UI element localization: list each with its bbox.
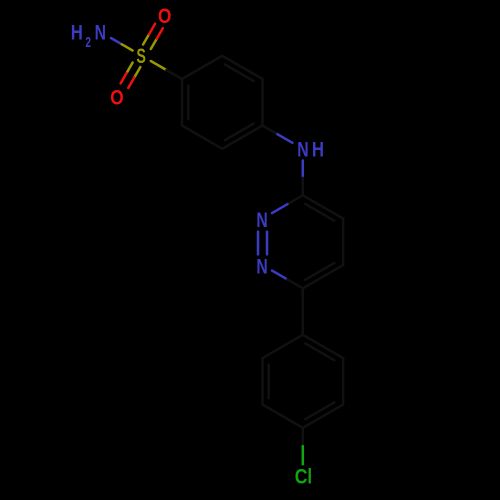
label N pyridazine top: [256, 208, 267, 232]
double bond S=O top: [151, 39, 157, 49]
ring1 double edge Cd-Vbot: [222, 126, 262, 149]
bond S-C ring1: [151, 61, 167, 70]
ring2 double edge C6-C5: [303, 265, 343, 288]
svg-text:N: N: [95, 20, 106, 44]
svg-text:N: N: [256, 208, 267, 232]
ring1 edge Vbot-Vbl: [182, 126, 222, 149]
ring3 double edge C1p-C2p: [303, 335, 343, 358]
ring3 double edge C5p-C6p: [261, 358, 264, 405]
label S: [136, 44, 146, 67]
svg-text:H: H: [71, 22, 83, 45]
bond ring3-Cl: [302, 428, 305, 446]
ring1 edge Vtr-Cd: [261, 79, 264, 126]
bond N-C6 ring2: [272, 271, 287, 280]
label O bottom: [110, 87, 123, 110]
bond ring1-NH: [263, 126, 278, 135]
svg-text:O: O: [158, 6, 171, 29]
label NH: [297, 137, 308, 161]
label N pyridazine bottom: [256, 254, 267, 278]
double bond N=N: [257, 232, 260, 255]
ring1 double edge Vbl-Ca: [181, 79, 184, 126]
benzene ring1 edge CaVtop: [182, 56, 222, 79]
svg-text:S: S: [136, 44, 146, 67]
label O top: [158, 6, 171, 29]
ring3 double edge C3p-C4p: [303, 405, 343, 428]
svg-text:C: C: [295, 465, 308, 489]
svg-text:H: H: [312, 139, 324, 162]
ring3 edge C4p-C5p: [263, 405, 303, 428]
double bond S=O bottom: [127, 63, 133, 73]
bond H2N-S: [111, 38, 122, 44]
label H2N: [71, 22, 83, 45]
bond ring2-ring3: [302, 288, 305, 335]
label Cl: [295, 465, 308, 489]
svg-text:N: N: [297, 137, 308, 161]
ring3 edge C2p-C3p: [342, 358, 345, 405]
bond C3-N ring2: [287, 195, 302, 204]
ring3 edge C6p-C1p: [263, 335, 303, 358]
svg-text:l: l: [307, 466, 312, 489]
ring1 double edge Vtop-Vtr: [222, 56, 262, 79]
ring2 double edge C4-C3: [303, 195, 343, 218]
ring2 edge C5-C4: [342, 219, 345, 266]
svg-text:N: N: [256, 254, 267, 278]
svg-text:2: 2: [85, 34, 91, 50]
svg-text:O: O: [110, 87, 123, 110]
bond NH-ring2: [302, 161, 305, 178]
